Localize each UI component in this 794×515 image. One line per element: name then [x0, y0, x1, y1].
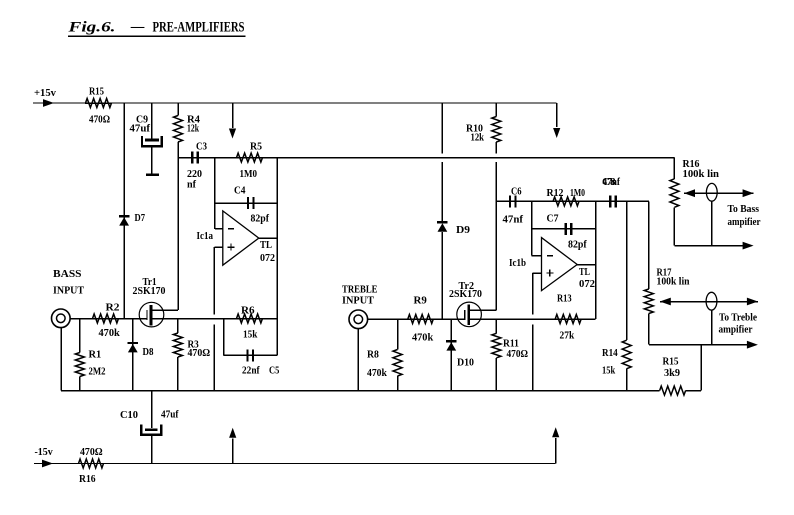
- wire R15 leads: [85, 102, 112, 104]
- wire supply stub up 1: [232, 439, 234, 464]
- svg-text:R5: R5: [250, 141, 262, 153]
- wire supply stub up 2: [555, 438, 557, 464]
- diode D7: [119, 215, 129, 217]
- wire Ic1a non-inverting to 0v (jump over): [213, 247, 215, 390]
- resistor R12 1M0: [553, 197, 579, 206]
- diode D9: [437, 221, 447, 223]
- arrow to bass amp bottom: [743, 242, 754, 250]
- svg-text:R13: R13: [557, 293, 572, 305]
- svg-text:D9: D9: [456, 224, 471, 236]
- resistor R1 2M2: [79, 319, 81, 353]
- wire R17 wiper line: [660, 301, 758, 303]
- arrow to treble amp top: [747, 298, 758, 306]
- resistor R3 470ohm: [177, 319, 179, 334]
- transistor Q2 Tr2 2SK170 JFET: [457, 302, 482, 327]
- svg-text:47uf: 47uf: [161, 409, 179, 421]
- resistor R13 27k: [555, 315, 581, 324]
- wire R17 knob vertical: [711, 310, 713, 345]
- wire treble output bottom line: [649, 344, 749, 346]
- svg-text:C7: C7: [547, 213, 559, 225]
- svg-text:072: 072: [579, 278, 595, 290]
- wire R15 riser to treble bottom line: [700, 345, 702, 391]
- svg-text:D10: D10: [457, 357, 474, 369]
- capacitor C6 47nf: [510, 195, 515, 207]
- capacitor C5 22nf: [248, 349, 253, 361]
- svg-text:BASS: BASS: [53, 268, 82, 280]
- wire Ic1a minus stub: [215, 228, 223, 230]
- capacitor C8 47nf: [610, 195, 615, 207]
- knob R17 shaft ellipse: [706, 292, 717, 310]
- resistor R10 12k: [495, 103, 497, 117]
- capacitor C3 220nf: [192, 152, 197, 164]
- transistor Q1 Tr1 2SK170 JFET: [139, 302, 164, 327]
- wire D7 branch: [123, 103, 125, 319]
- wire supply stub down 1: [232, 103, 234, 128]
- title underline: [68, 35, 246, 37]
- svg-text:D7: D7: [135, 212, 146, 224]
- svg-text:C3: C3: [196, 141, 207, 153]
- svg-text:PRE-AMPLIFIERS: PRE-AMPLIFIERS: [153, 20, 245, 36]
- svg-text:R12: R12: [547, 187, 564, 199]
- svg-text:27k: 27k: [560, 330, 575, 342]
- knob R16 shaft ellipse: [706, 183, 717, 201]
- arrow up V- 2: [552, 427, 559, 437]
- connector bass input socket: [52, 309, 71, 328]
- svg-text:15k: 15k: [602, 365, 616, 377]
- diode D10: [446, 340, 456, 342]
- wire bass op-amp line: [178, 157, 674, 159]
- wire D10 branch: [450, 319, 452, 391]
- svg-text:nf: nf: [187, 179, 196, 191]
- wire R10 lower (jump over bass line): [495, 142, 497, 201]
- svg-text:+15v: +15v: [34, 87, 56, 99]
- wire Tr2 drain vertical: [495, 201, 497, 310]
- svg-text:ampifier: ampifier: [719, 324, 753, 336]
- connector treble input socket: [349, 310, 368, 329]
- svg-text:R1: R1: [89, 349, 102, 361]
- svg-text:2M2: 2M2: [89, 366, 106, 378]
- wire Ic1a inverting input: [214, 158, 216, 229]
- svg-text:22nf: 22nf: [242, 365, 260, 377]
- resistor R8 470k: [397, 319, 399, 350]
- svg-text:R8: R8: [367, 349, 379, 361]
- svg-text:Ic1a: Ic1a: [197, 230, 214, 242]
- svg-text:R16: R16: [79, 473, 96, 485]
- svg-text:47nf: 47nf: [603, 176, 621, 188]
- wire R16 wiper line: [684, 192, 754, 194]
- wire treble input to gate: [368, 318, 465, 320]
- svg-text:To Treble: To Treble: [719, 312, 757, 324]
- svg-text:TL: TL: [260, 239, 272, 251]
- arrow R16 wiper left: [684, 189, 695, 197]
- wire C5 line: [224, 354, 277, 356]
- wire D9 branch upper (jump over): [441, 103, 443, 221]
- svg-text:12k: 12k: [187, 123, 200, 135]
- svg-text:—: —: [130, 19, 145, 35]
- svg-text:47uf: 47uf: [130, 123, 151, 135]
- capacitor C7 82pf: [566, 223, 571, 235]
- svg-text:C4: C4: [234, 185, 246, 197]
- svg-text:R9: R9: [414, 295, 428, 307]
- svg-text:Ic1b: Ic1b: [509, 257, 526, 269]
- svg-text:INPUT: INPUT: [342, 295, 375, 307]
- svg-text:2SK170: 2SK170: [449, 288, 482, 300]
- wire Ic1b output vertical node: [595, 201, 597, 319]
- Ic1a minus sign: [228, 228, 234, 230]
- svg-text:ampifier: ampifier: [728, 216, 761, 228]
- svg-text:470Ω: 470Ω: [188, 347, 211, 359]
- arrow +15v feed: [43, 99, 54, 107]
- diode D8: [128, 342, 138, 344]
- svg-text:82pf: 82pf: [568, 239, 587, 251]
- wire +15v rail: [33, 102, 557, 104]
- wire Tr2 source line: [470, 318, 596, 320]
- svg-text:12k: 12k: [471, 132, 485, 144]
- svg-text:R6: R6: [241, 305, 255, 317]
- arrow down V+ 2: [553, 128, 560, 138]
- wire R16 knob vertical: [711, 201, 713, 245]
- svg-text:470Ω: 470Ω: [507, 348, 529, 360]
- wire Tr1 drain vertical to R4/C3: [177, 158, 179, 311]
- wire Ic1b output: [577, 264, 596, 266]
- svg-text:C6: C6: [511, 186, 522, 198]
- svg-text:R15: R15: [89, 86, 104, 98]
- svg-text:C10: C10: [120, 409, 138, 421]
- svg-text:100k lin: 100k lin: [683, 168, 720, 180]
- resistor R6 15k: [237, 314, 263, 323]
- wire bass socket to 0v rail: [60, 328, 62, 391]
- wire D9 branch lower: [441, 232, 443, 319]
- wire Ic1a output: [259, 237, 277, 239]
- Ic1a plus sign: [228, 244, 235, 251]
- Ic1b minus sign: [547, 255, 553, 257]
- arrow down V+ 1: [229, 129, 236, 139]
- potentiometer R17 100k lin: [648, 201, 650, 289]
- svg-text:-15v: -15v: [35, 446, 54, 458]
- resistor R4 12k: [177, 103, 179, 116]
- capacitor C9 47uf: [151, 103, 153, 139]
- svg-text:072: 072: [260, 252, 275, 264]
- svg-text:470Ω: 470Ω: [89, 114, 110, 126]
- wire D8 branch: [132, 319, 134, 391]
- wire after R15: [686, 390, 701, 392]
- wire Tr2 drain: [470, 309, 496, 311]
- svg-text:R15: R15: [663, 356, 679, 368]
- svg-text:47nf: 47nf: [503, 214, 524, 226]
- Ic1b plus sign: [546, 270, 553, 277]
- wire Ic1a output vertical node: [276, 158, 278, 356]
- wire -15v rail: [34, 463, 556, 465]
- wire Tr1 source line: [152, 318, 277, 320]
- svg-text:To Bass: To Bass: [728, 203, 760, 215]
- wire Ic1b plus stub: [533, 272, 542, 274]
- wire C4 line: [215, 202, 277, 204]
- arrow R17 wiper left: [660, 298, 671, 306]
- wire treble socket to 0v rail: [357, 329, 359, 391]
- svg-text:470Ω: 470Ω: [80, 446, 103, 458]
- arrow up V- 1: [229, 428, 236, 438]
- svg-text:470k: 470k: [412, 332, 434, 344]
- svg-text:82pf: 82pf: [251, 213, 270, 225]
- wire supply stub down 2: [556, 103, 558, 127]
- op-amp U1a Ic1a TL072: [223, 211, 259, 265]
- svg-text:R2: R2: [106, 302, 121, 314]
- wire 0v rail: [61, 390, 660, 392]
- svg-text:470k: 470k: [99, 327, 121, 339]
- wire Ic1b inverting input vertical: [531, 201, 533, 255]
- wire R16 bottom line: [674, 245, 744, 247]
- svg-text:100k lin: 100k lin: [657, 276, 690, 288]
- resistor R16 470ohm (supply): [79, 459, 104, 468]
- svg-text:2SK170: 2SK170: [133, 285, 166, 297]
- svg-text:R14: R14: [602, 347, 618, 359]
- op-amp U1b Ic1b TL072: [542, 238, 578, 291]
- wire Ic1a plus stub: [214, 246, 222, 248]
- resistor R11 470ohm: [495, 319, 497, 333]
- resistor R15 3k9: [660, 386, 686, 395]
- resistor R2 470k: [93, 314, 119, 323]
- resistor R14 15k: [626, 201, 628, 340]
- arrow -15v feed: [42, 460, 53, 468]
- wire Tr1 drain: [152, 309, 178, 311]
- arrow to bass amp top: [743, 189, 754, 197]
- arrow to treble amp bottom: [747, 341, 758, 349]
- potentiometer R16 100k lin: [673, 158, 675, 179]
- svg-text:3k9: 3k9: [664, 367, 680, 379]
- capacitor C4 82pf: [248, 197, 253, 209]
- resistor R5 1M0: [237, 153, 263, 162]
- svg-text:1M0: 1M0: [570, 187, 585, 199]
- wire Ic1b non-inverting to 0v (jump over): [532, 273, 534, 391]
- wire C5 left vertical: [223, 319, 225, 356]
- capacitor C10 47uf: [151, 391, 153, 428]
- wire Ic1b minus stub: [532, 255, 542, 257]
- resistor R15: [86, 99, 112, 108]
- svg-text:1M0: 1M0: [240, 168, 258, 180]
- svg-text:D8: D8: [143, 346, 154, 358]
- wire C7 line: [532, 228, 596, 230]
- svg-text:Fig.6.: Fig.6.: [67, 20, 115, 36]
- svg-text:INPUT: INPUT: [53, 285, 85, 297]
- svg-text:15k: 15k: [243, 329, 258, 341]
- svg-text:C5: C5: [269, 365, 280, 377]
- wire treble op-amp node line: [496, 200, 649, 202]
- resistor R9 470k: [408, 315, 434, 324]
- svg-text:470k: 470k: [367, 367, 388, 379]
- wire bass input to gate: [70, 318, 147, 320]
- svg-text:TL: TL: [579, 266, 590, 278]
